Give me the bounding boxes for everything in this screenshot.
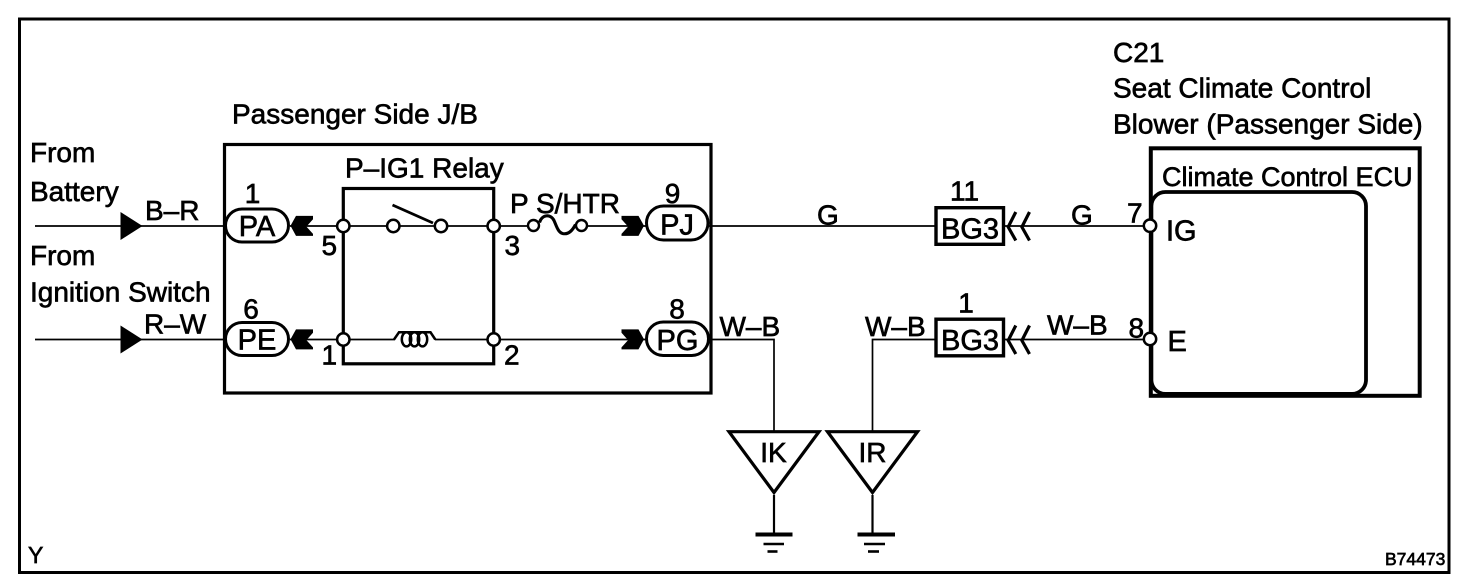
svg-text:1: 1 xyxy=(245,178,261,209)
svg-text:7: 7 xyxy=(1127,198,1143,229)
svg-text:C21: C21 xyxy=(1113,37,1164,68)
arrow ignition feed xyxy=(121,326,143,354)
ECU inner rounded box xyxy=(1151,192,1366,394)
svg-text:W–B: W–B xyxy=(720,311,781,342)
svg-text:8: 8 xyxy=(1129,313,1145,344)
relay P-IG1 box xyxy=(343,189,493,364)
wire top row fuse to ECU pin 7 xyxy=(582,225,1143,227)
wire PG to ground IK xyxy=(710,340,774,432)
connector PG xyxy=(647,322,709,356)
svg-text:P–IG1 Relay: P–IG1 Relay xyxy=(345,153,504,184)
svg-text:Passenger Side J/B: Passenger Side J/B xyxy=(232,99,478,130)
relay coil xyxy=(394,332,435,346)
relay coil pin 1 xyxy=(337,333,349,345)
svg-text:8: 8 xyxy=(669,294,685,325)
svg-text:9: 9 xyxy=(665,178,681,209)
relay contact pin 5 xyxy=(337,220,349,232)
svg-text:2: 2 xyxy=(504,340,520,371)
relay contact pin 3 xyxy=(488,220,500,232)
svg-text:Seat Climate Control: Seat Climate Control xyxy=(1113,73,1371,104)
wire bottom row coil to PG xyxy=(435,339,646,341)
svg-text:PG: PG xyxy=(657,325,699,357)
svg-text:E: E xyxy=(1168,326,1187,358)
relay coil pin 2 xyxy=(488,333,500,345)
svg-text:11: 11 xyxy=(950,176,979,207)
ground IR stem xyxy=(871,495,873,533)
chevrons BG3 bottom xyxy=(1008,326,1016,355)
svg-text:P S/HTR: P S/HTR xyxy=(510,188,620,219)
svg-text:B–R: B–R xyxy=(145,195,199,226)
ECU pin 8 terminal xyxy=(1144,333,1156,345)
svg-text:G: G xyxy=(1071,200,1093,231)
wire battery feed B-R xyxy=(35,225,226,227)
svg-text:W–B: W–B xyxy=(865,311,926,342)
svg-text:BG3: BG3 xyxy=(941,213,999,245)
svg-text:IG: IG xyxy=(1166,216,1197,248)
ground IK stem xyxy=(773,495,775,533)
connector BG3 bottom xyxy=(936,319,1004,356)
connector PJ xyxy=(647,206,709,240)
ECU outer box xyxy=(1151,148,1420,395)
wire BG3 pin1 to ground IR xyxy=(873,340,937,432)
ground IK symbol xyxy=(756,535,793,552)
svg-text:PJ: PJ xyxy=(660,209,694,241)
fuse terminal xyxy=(528,220,539,231)
arrow battery feed xyxy=(121,212,143,240)
junction block Passenger Side J/B box xyxy=(225,145,712,394)
arrow into PG xyxy=(622,329,645,349)
svg-text:IK: IK xyxy=(760,437,787,468)
wire top row inside J/B to fuse xyxy=(290,225,534,227)
node C21 title xyxy=(1113,37,1423,140)
ECU pin 7 terminal xyxy=(1144,220,1156,232)
relay switch blade xyxy=(393,205,434,223)
connector PE xyxy=(226,323,289,356)
connector PA xyxy=(226,209,289,242)
svg-text:PE: PE xyxy=(238,324,277,356)
wire ignition feed R-W xyxy=(35,339,226,341)
svg-text:G: G xyxy=(817,200,839,231)
svg-text:BG3: BG3 xyxy=(941,325,999,357)
svg-text:From: From xyxy=(30,137,95,168)
ground IK triangle xyxy=(729,432,819,493)
fuse terminal xyxy=(576,220,587,231)
node From Ignition Switch label xyxy=(30,240,211,308)
svg-text:PA: PA xyxy=(239,211,276,243)
svg-text:5: 5 xyxy=(322,230,338,261)
svg-text:1: 1 xyxy=(322,340,338,371)
wire bottom row PE to coil xyxy=(290,339,395,341)
chevrons BG3 top xyxy=(1008,212,1016,241)
arrow into PE xyxy=(291,329,314,349)
svg-text:W–B: W–B xyxy=(1047,310,1108,341)
svg-text:3: 3 xyxy=(505,230,521,261)
relay contact xyxy=(435,220,447,232)
svg-text:Y: Y xyxy=(28,542,43,568)
fuse element wave xyxy=(540,216,576,234)
svg-text:IR: IR xyxy=(859,437,887,468)
node From Battery label xyxy=(30,137,119,207)
ground IR symbol xyxy=(858,535,896,552)
svg-text:Climate Control ECU: Climate Control ECU xyxy=(1162,162,1413,192)
svg-text:B74473: B74473 xyxy=(1385,549,1445,569)
svg-text:Battery: Battery xyxy=(30,176,119,207)
relay contact xyxy=(387,220,399,232)
svg-text:Ignition Switch: Ignition Switch xyxy=(30,277,211,308)
arrow into PJ xyxy=(622,216,645,236)
svg-text:Blower (Passenger Side): Blower (Passenger Side) xyxy=(1113,109,1423,140)
connector BG3 top xyxy=(936,208,1004,245)
wire BG3 pin1 to ECU pin 8 xyxy=(1005,339,1143,341)
svg-text:1: 1 xyxy=(958,288,974,319)
svg-text:6: 6 xyxy=(243,294,259,325)
ground IR triangle xyxy=(828,432,918,493)
svg-text:R–W: R–W xyxy=(144,309,207,340)
svg-text:From: From xyxy=(30,240,95,271)
arrow into PA xyxy=(291,216,314,236)
